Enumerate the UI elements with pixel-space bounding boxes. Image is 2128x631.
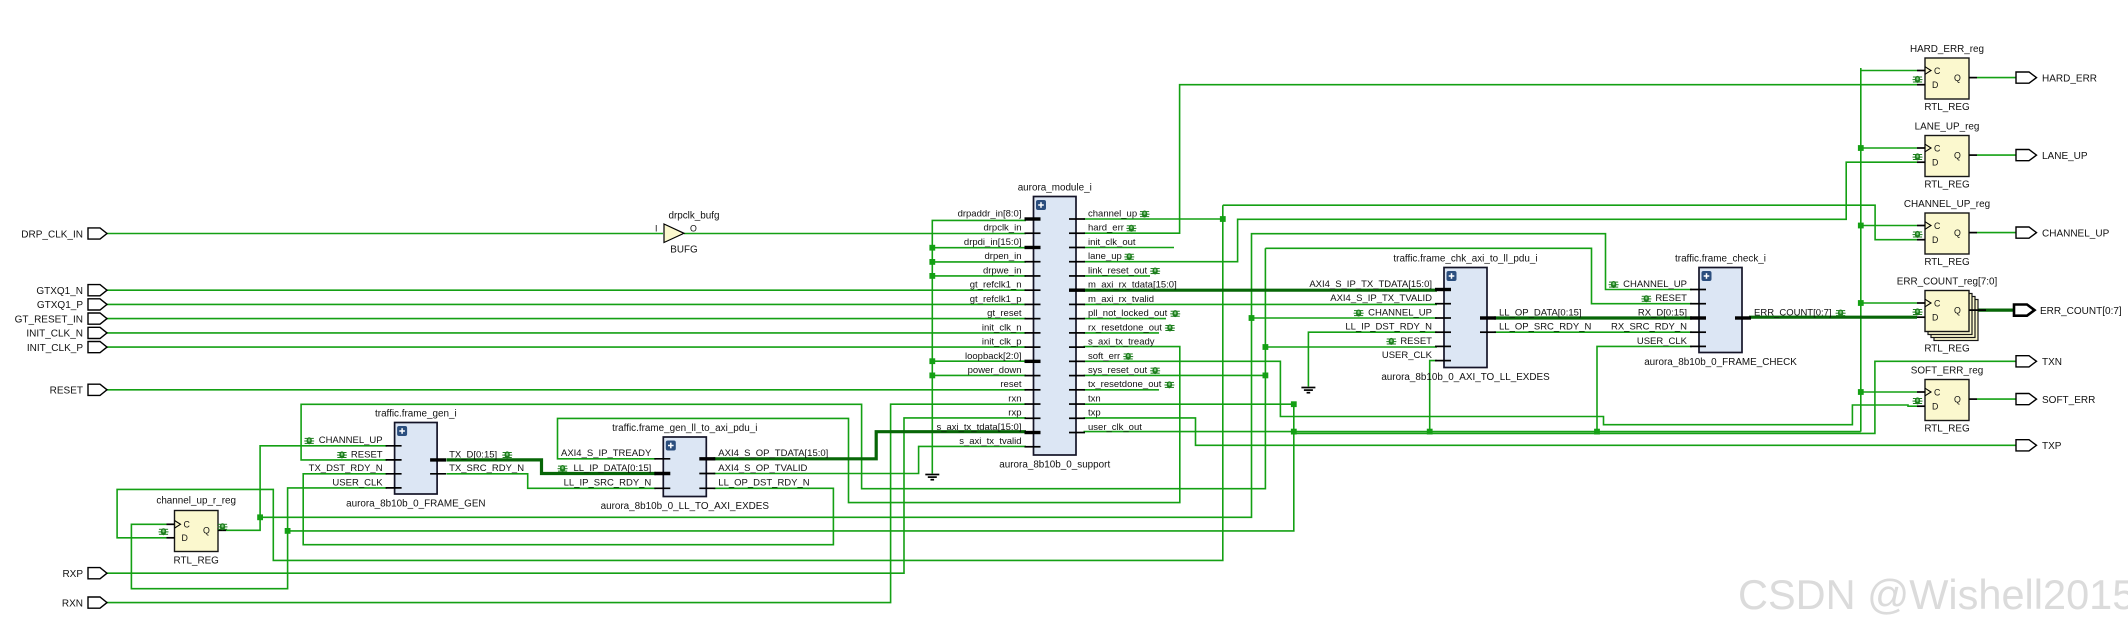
svg-text:init_clk_out: init_clk_out — [1088, 237, 1136, 248]
svg-text:HARD_ERR: HARD_ERR — [2042, 73, 2097, 84]
svg-text:USER_CLK: USER_CLK — [1382, 350, 1433, 361]
debug icons on AXI_TO_LL pins — [1354, 310, 1364, 317]
pin RESET — [1435, 345, 1451, 347]
dangling net tx_resetdone_out — [1084, 389, 1160, 391]
wire GTXQ1_P to gt_refclk1_p — [106, 303, 1026, 305]
svg-text:CSDN @Wishell2015: CSDN @Wishell2015 — [1738, 571, 2128, 618]
svg-text:CHANNEL_UP: CHANNEL_UP — [1623, 279, 1687, 290]
pin LL_OP_DST_RDY_N — [699, 487, 715, 489]
net txp to TXP port — [1084, 418, 2017, 445]
debug icons on channel_up_r_reg — [159, 528, 169, 535]
module traffic.frame_chk_axi_to_ll_pdu_i (aurora_8b10b_0_AXI_TO_LL_EXDES) — [1444, 268, 1487, 368]
svg-text:GTXQ1_P: GTXQ1_P — [37, 300, 83, 311]
svg-text:ERR_COUNT_reg[7:0]: ERR_COUNT_reg[7:0] — [1897, 277, 1998, 288]
net m_axi_rx_tvalid aurora to AXI_TO_LL — [1084, 303, 1438, 305]
debug icons on aurora outputs — [1140, 211, 1150, 218]
debug icon on ERR_COUNT net — [1836, 310, 1846, 317]
pin drpclk_in — [1025, 232, 1041, 234]
svg-text:AXI4_S_OP_TVALID: AXI4_S_OP_TVALID — [718, 463, 807, 474]
svg-text:SOFT_ERR: SOFT_ERR — [2042, 395, 2095, 406]
svg-text:RTL_REG: RTL_REG — [1924, 343, 1969, 354]
input port GT_RESET_IN — [88, 313, 107, 324]
svg-text:tx_resetdone_out: tx_resetdone_out — [1088, 379, 1162, 390]
debug icons on frame_gen pins — [304, 437, 314, 444]
svg-text:TX_SRC_RDY_N: TX_SRC_RDY_N — [449, 463, 524, 474]
svg-text:drpdi_in[15:0]: drpdi_in[15:0] — [964, 237, 1022, 248]
svg-text:loopback[2:0]: loopback[2:0] — [965, 351, 1022, 362]
svg-text:CHANNEL_UP_reg: CHANNEL_UP_reg — [1904, 199, 1990, 210]
net sys_reset_out (reset distribution to frame_gen/AXI_TO_LL/frame_check) — [1084, 374, 1266, 376]
svg-text:power_down: power_down — [968, 365, 1022, 376]
svg-text:RESET: RESET — [351, 449, 383, 460]
wire SOFT_ERR_reg Q to SOFT_ERR port — [1977, 398, 2016, 400]
svg-text:RXP: RXP — [62, 569, 83, 580]
ground net tying aurora drp/loopback/power_down inputs — [932, 220, 1026, 473]
svg-text:Q: Q — [1954, 151, 1961, 161]
svg-text:traffic.frame_check_i: traffic.frame_check_i — [1675, 254, 1766, 265]
svg-text:TX_DST_RDY_N: TX_DST_RDY_N — [309, 463, 383, 474]
wire DRP_CLK_IN to BUFG — [106, 233, 663, 235]
svg-text:D: D — [1932, 158, 1938, 168]
svg-text:D: D — [1932, 402, 1938, 412]
svg-text:BUFG: BUFG — [670, 244, 697, 255]
svg-text:O: O — [690, 224, 697, 234]
svg-text:USER_CLK: USER_CLK — [1637, 336, 1688, 347]
svg-text:RX_D[0:15]: RX_D[0:15] — [1638, 307, 1687, 318]
svg-text:init_clk_n: init_clk_n — [982, 322, 1022, 333]
wire INIT_CLK_P to init_clk_p — [106, 346, 1026, 348]
input port DRP_CLK_IN — [88, 228, 107, 239]
pin AXI4_S_IP_TX_TVALID — [1435, 303, 1451, 305]
svg-text:aurora_8b10b_0_AXI_TO_LL_EXDES: aurora_8b10b_0_AXI_TO_LL_EXDES — [1381, 372, 1550, 383]
register CHANNEL_UP_reg (RTL_REG) — [1925, 213, 1969, 254]
debug icons on frame_check pins — [1609, 281, 1619, 288]
pin init_clk_p — [1025, 346, 1041, 348]
svg-text:C: C — [1934, 387, 1941, 397]
pin drpdi_in[15:0] — [1025, 246, 1041, 249]
output port TXP — [2016, 440, 2037, 451]
dangling net init_clk_out — [1084, 247, 1175, 249]
svg-text:D: D — [1932, 80, 1938, 90]
svg-text:drpclk_in: drpclk_in — [983, 223, 1021, 234]
svg-text:LANE_UP_reg: LANE_UP_reg — [1915, 122, 1980, 133]
svg-text:link_reset_out: link_reset_out — [1088, 265, 1148, 276]
svg-text:reset: reset — [1000, 379, 1021, 390]
svg-text:C: C — [1934, 298, 1941, 308]
register HARD_ERR_reg (RTL_REG) — [1925, 58, 1969, 99]
svg-text:aurora_module_i: aurora_module_i — [1018, 183, 1092, 194]
svg-text:Q: Q — [1954, 228, 1961, 238]
wire LANE_UP_reg Q to LANE_UP port — [1977, 154, 2016, 156]
ground net tying AXI_TO_LL LL_IP_DST_RDY_N — [1308, 332, 1437, 386]
svg-text:aurora_8b10b_0_support: aurora_8b10b_0_support — [999, 460, 1110, 471]
net ll dst_rdy: LL_OP_DST_RDY_N to frame_gen TX_DST_RDY_N — [303, 474, 833, 545]
net channel_up from aurora to CHANNEL_UP_reg D and channel_up_r_reg D — [1084, 218, 1223, 220]
wire GT_RESET_IN to gt_reset — [106, 318, 1026, 320]
ground symbol under aurora — [925, 475, 939, 480]
wire RESET to aurora reset — [106, 389, 1026, 391]
wire CHANNEL_UP_reg Q to CHANNEL_UP port — [1977, 232, 2016, 234]
svg-text:RTL_REG: RTL_REG — [1924, 423, 1969, 434]
svg-text:RTL_REG: RTL_REG — [1924, 257, 1969, 268]
svg-text:s_axi_tx_tvalid: s_axi_tx_tvalid — [959, 436, 1021, 447]
junction dots sys_reset net — [1263, 373, 1269, 379]
svg-text:lane_up: lane_up — [1088, 251, 1122, 262]
pin hard_err — [1069, 232, 1085, 234]
svg-text:soft_err: soft_err — [1088, 351, 1120, 362]
svg-text:RESET: RESET — [1655, 293, 1687, 304]
pin TX_D[0:15] — [430, 458, 446, 461]
pin RX_D[0:15] — [1690, 316, 1706, 319]
svg-text:pll_not_locked_out: pll_not_locked_out — [1088, 308, 1168, 319]
svg-text:I: I — [655, 224, 657, 234]
svg-text:channel_up_r_reg: channel_up_r_reg — [156, 496, 236, 507]
module traffic.frame_check_i (aurora_8b10b_0_FRAME_CHECK) — [1699, 268, 1742, 353]
pin LL_OP_SRC_RDY_N — [1480, 331, 1496, 333]
svg-text:Q: Q — [203, 526, 210, 536]
pin soft_err — [1069, 360, 1085, 362]
svg-text:init_clk_p: init_clk_p — [982, 337, 1022, 348]
output port TXN — [2016, 356, 2037, 367]
input port RXN — [88, 597, 107, 608]
pin CHANNEL_UP — [386, 445, 402, 447]
svg-text:hard_err: hard_err — [1088, 223, 1124, 234]
svg-text:gt_reset: gt_reset — [987, 308, 1022, 319]
svg-text:m_axi_rx_tvalid: m_axi_rx_tvalid — [1088, 294, 1154, 305]
svg-text:s_axi_tx_tdata[15:0]: s_axi_tx_tdata[15:0] — [936, 422, 1021, 433]
input port GTXQ1_P — [88, 299, 107, 310]
pin loopback[2:0] — [1025, 360, 1041, 363]
svg-text:drpwe_in: drpwe_in — [983, 265, 1022, 276]
pin LL_OP_DATA[0:15] — [1480, 316, 1496, 319]
pin txp — [1069, 417, 1085, 419]
register LANE_UP_reg (RTL_REG) — [1925, 136, 1969, 177]
svg-text:AXI4_S_IP_TREADY: AXI4_S_IP_TREADY — [561, 448, 652, 459]
svg-text:LL_OP_SRC_RDY_N: LL_OP_SRC_RDY_N — [1499, 322, 1592, 333]
svg-text:AXI4_S_OP_TDATA[15:0]: AXI4_S_OP_TDATA[15:0] — [718, 448, 828, 459]
pin RESET — [386, 459, 402, 461]
debug icon on LL_IP_DATA — [558, 465, 568, 472]
pin link_reset_out — [1069, 275, 1085, 277]
junction dots user_clk net — [1291, 429, 1297, 435]
svg-text:AXI4_S_IP_TX_TVALID: AXI4_S_IP_TX_TVALID — [1330, 293, 1432, 304]
svg-text:user_clk_out: user_clk_out — [1088, 422, 1142, 433]
junction dots CHANNEL_UP net — [257, 514, 263, 520]
svg-text:USER_CLK: USER_CLK — [332, 477, 383, 488]
ground symbol near AXI_TO_LL — [1301, 388, 1315, 393]
pin s_axi_tx_tdata[15:0] — [1025, 431, 1041, 434]
svg-text:HARD_ERR_reg: HARD_ERR_reg — [1910, 44, 1984, 55]
buffer drpclk_bufg (BUFG) — [664, 224, 684, 243]
svg-text:traffic.frame_gen_i: traffic.frame_gen_i — [375, 409, 457, 420]
svg-text:traffic.frame_gen_ll_to_axi_pd: traffic.frame_gen_ll_to_axi_pdu_i — [612, 423, 757, 434]
svg-text:s_axi_tx_tready: s_axi_tx_tready — [1088, 337, 1155, 348]
svg-text:LL_IP_SRC_RDY_N: LL_IP_SRC_RDY_N — [564, 478, 652, 489]
svg-text:LL_IP_DST_RDY_N: LL_IP_DST_RDY_N — [1345, 322, 1432, 333]
pin init_clk_n — [1025, 332, 1041, 334]
svg-text:RTL_REG: RTL_REG — [1924, 102, 1969, 113]
svg-text:rxp: rxp — [1008, 408, 1021, 419]
svg-text:txp: txp — [1088, 408, 1101, 419]
bus AXI4_S_OP_TDATA to s_axi_tx_tdata — [714, 432, 1027, 459]
pin USER_CLK — [1690, 345, 1706, 347]
pin gt_refclk1_n — [1025, 289, 1041, 291]
register SOFT_ERR_reg (RTL_REG) — [1925, 380, 1969, 421]
bus ERR_COUNT_reg Q to ERR_COUNT port — [1978, 309, 2014, 312]
pin RESET — [1690, 303, 1706, 305]
junction dot txn — [1291, 401, 1297, 407]
pin USER_CLK — [386, 487, 402, 489]
svg-text:C: C — [1934, 143, 1941, 153]
svg-text:RTL_REG: RTL_REG — [174, 556, 219, 567]
output port CHANNEL_UP — [2016, 227, 2037, 238]
register array ERR_COUNT_reg[7:0] (RTL_REG) — [1934, 300, 1978, 341]
pin tx_resetdone_out — [1069, 389, 1085, 391]
output port HARD_ERR — [2016, 72, 2037, 83]
svg-text:C: C — [184, 520, 191, 530]
svg-text:aurora_8b10b_0_FRAME_CHECK: aurora_8b10b_0_FRAME_CHECK — [1644, 357, 1797, 368]
junction dot channel_up — [1220, 216, 1226, 222]
module aurora_module_i (aurora_8b10b_0_support) — [1034, 197, 1077, 456]
pin txn — [1069, 403, 1085, 405]
pin pll_not_locked_out — [1069, 318, 1085, 320]
input port INIT_CLK_N — [88, 327, 107, 338]
svg-text:INIT_CLK_P: INIT_CLK_P — [27, 343, 83, 354]
pin ERR_COUNT[0:7] — [1735, 316, 1751, 319]
pin user_clk_out — [1069, 432, 1085, 434]
svg-text:sys_reset_out: sys_reset_out — [1088, 365, 1148, 376]
net tx_src_rdy: frame_gen TX_SRC_RDY_N to LL_IP_SRC_RDY_N — [447, 474, 657, 489]
svg-text:INIT_CLK_N: INIT_CLK_N — [26, 329, 83, 340]
svg-text:traffic.frame_chk_axi_to_ll_pd: traffic.frame_chk_axi_to_ll_pdu_i — [1393, 254, 1537, 265]
pin LL_IP_SRC_RDY_N — [654, 487, 670, 489]
svg-text:RESET: RESET — [50, 386, 83, 397]
dangling net rx_resetdone_out — [1084, 332, 1160, 334]
pin m_axi_rx_tdata[15:0] — [1069, 288, 1085, 291]
dangling net pll_not_locked_out — [1084, 318, 1167, 320]
net axi tvalid: AXI4_S_OP_TVALID to s_axi_tx_tvalid — [714, 446, 1027, 473]
pin TX_DST_RDY_N — [386, 473, 402, 475]
pin gt_reset — [1025, 318, 1041, 320]
pin m_axi_rx_tvalid — [1069, 303, 1085, 305]
svg-text:gt_refclk1_n: gt_refclk1_n — [970, 280, 1022, 291]
pin reset — [1025, 389, 1041, 391]
svg-text:C: C — [1934, 66, 1941, 76]
svg-text:CHANNEL_UP: CHANNEL_UP — [319, 435, 383, 446]
svg-text:TX_D[0:15]: TX_D[0:15] — [449, 449, 497, 460]
pin RX_SRC_RDY_N — [1690, 331, 1706, 333]
svg-text:m_axi_rx_tdata[15:0]: m_axi_rx_tdata[15:0] — [1088, 280, 1177, 291]
svg-text:D: D — [1932, 235, 1938, 245]
svg-text:DRP_CLK_IN: DRP_CLK_IN — [21, 229, 83, 240]
svg-text:TXP: TXP — [2042, 441, 2062, 452]
output port LANE_UP — [2016, 150, 2037, 161]
input port RXP — [88, 568, 107, 579]
dangling net link_reset_out — [1084, 275, 1151, 277]
svg-text:drpaddr_in[8:0]: drpaddr_in[8:0] — [958, 208, 1022, 219]
pin AXI4_S_OP_TDATA[15:0] — [699, 457, 715, 460]
svg-text:drpclk_bufg: drpclk_bufg — [668, 210, 719, 221]
svg-text:Q: Q — [1954, 395, 1961, 405]
net txn to TXN port — [1084, 361, 2017, 433]
svg-text:D: D — [182, 533, 188, 543]
pin rxn — [1025, 403, 1041, 405]
register channel_up_r_reg (RTL_REG) — [175, 511, 219, 552]
pin drpwe_in — [1025, 275, 1041, 277]
pin lane_up — [1069, 261, 1085, 263]
pin LL_IP_DST_RDY_N — [1435, 331, 1451, 333]
debug icons on register D inputs — [1913, 76, 1923, 83]
svg-text:txn: txn — [1088, 393, 1101, 404]
svg-text:drpen_in: drpen_in — [985, 251, 1022, 262]
pin init_clk_out — [1069, 246, 1085, 248]
wire drpclk (BUFG output to aurora drpclk_in) — [684, 233, 1026, 235]
svg-text:SOFT_ERR_reg: SOFT_ERR_reg — [1911, 366, 1983, 377]
net hard_err to HARD_ERR_reg D — [1084, 85, 1918, 234]
svg-text:channel_up: channel_up — [1088, 208, 1137, 219]
wire GTXQ1_N to gt_refclk1_n — [106, 289, 1026, 291]
svg-text:GT_RESET_IN: GT_RESET_IN — [15, 314, 83, 325]
net LL_OP_SRC_RDY_N to RX_SRC_RDY_N — [1494, 331, 1692, 333]
svg-text:ERR_COUNT[0:7]: ERR_COUNT[0:7] — [2040, 306, 2122, 317]
output port SOFT_ERR — [2016, 394, 2037, 405]
svg-text:C: C — [1934, 221, 1941, 231]
svg-text:AXI4_S_IP_TX_TDATA[15:0]: AXI4_S_IP_TX_TDATA[15:0] — [1309, 279, 1432, 290]
wire HARD_ERR_reg Q to HARD_ERR port — [1977, 77, 2016, 79]
pin drpaddr_in[8:0] — [1025, 217, 1041, 220]
svg-text:gt_refclk1_p: gt_refclk1_p — [970, 294, 1022, 305]
svg-text:CHANNEL_UP: CHANNEL_UP — [1368, 307, 1432, 318]
junction dots on ground net — [929, 245, 935, 251]
net user_clk_out clock distribution — [1084, 431, 1861, 433]
pin channel_up — [1069, 218, 1085, 220]
pin power_down — [1025, 375, 1041, 377]
pin CHANNEL_UP — [1435, 317, 1451, 319]
svg-text:D: D — [1932, 313, 1938, 323]
pin TX_SRC_RDY_N — [430, 473, 446, 475]
bus TX_D frame_gen to LL_IP_DATA — [447, 460, 657, 474]
pin LL_IP_DATA[0:15] — [654, 472, 670, 475]
svg-text:CHANNEL_UP: CHANNEL_UP — [2042, 228, 2110, 239]
input port RESET — [88, 384, 107, 395]
input port GTXQ1_N — [88, 285, 107, 296]
pin AXI4_S_IP_TX_TDATA[15:0] — [1435, 288, 1451, 291]
net lane_up to LANE_UP_reg D — [1084, 162, 1918, 262]
svg-text:LL_OP_DATA[0:15]: LL_OP_DATA[0:15] — [1499, 307, 1582, 318]
pin sys_reset_out — [1069, 375, 1085, 377]
pin AXI4_S_OP_TVALID — [699, 473, 715, 475]
svg-text:LL_OP_DST_RDY_N: LL_OP_DST_RDY_N — [718, 478, 809, 489]
svg-text:RX_SRC_RDY_N: RX_SRC_RDY_N — [1611, 322, 1687, 333]
wire INIT_CLK_N to init_clk_n — [106, 332, 1026, 334]
pin AXI4_S_IP_TREADY — [654, 458, 670, 460]
svg-text:aurora_8b10b_0_FRAME_GEN: aurora_8b10b_0_FRAME_GEN — [346, 499, 485, 510]
svg-text:Q: Q — [1954, 73, 1961, 83]
svg-text:RTL_REG: RTL_REG — [1924, 179, 1969, 190]
svg-text:LL_IP_DATA[0:15]: LL_IP_DATA[0:15] — [573, 463, 651, 474]
bus ERR_COUNT frame_check to ERR_COUNT_reg D — [1749, 316, 1917, 319]
pin drpen_in — [1025, 261, 1041, 263]
svg-text:RXN: RXN — [62, 598, 83, 609]
svg-text:rxn: rxn — [1008, 393, 1021, 404]
wire RXN to aurora rxn — [106, 404, 1026, 602]
pin rxp — [1025, 417, 1041, 419]
svg-text:Q: Q — [1954, 306, 1961, 316]
bus LL_OP_DATA to frame_check RX_D — [1494, 316, 1692, 319]
svg-text:rx_resetdone_out: rx_resetdone_out — [1088, 322, 1162, 333]
input port INIT_CLK_P — [88, 342, 107, 353]
pin s_axi_tx_tvalid — [1025, 446, 1041, 448]
pin CHANNEL_UP — [1690, 289, 1706, 291]
net CHANNEL_UP (channel_up_r_reg Q) to frame_gen/AXI_TO_LL/frame_check — [226, 446, 387, 531]
svg-text:GTXQ1_N: GTXQ1_N — [36, 286, 83, 297]
module traffic.frame_gen_i (aurora_8b10b_0_FRAME_GEN) — [395, 423, 438, 495]
wire RXP to aurora rxp — [106, 418, 1026, 573]
pin gt_refclk1_p — [1025, 303, 1041, 305]
svg-text:RESET: RESET — [1400, 336, 1432, 347]
pin s_axi_tx_tready — [1069, 346, 1085, 348]
module traffic.frame_gen_ll_to_axi_pdu_i (aurora_8b10b_0_LL_TO_AXI_EXDES) — [663, 437, 706, 497]
pin rx_resetdone_out — [1069, 332, 1085, 334]
svg-text:aurora_8b10b_0_LL_TO_AXI_EXDES: aurora_8b10b_0_LL_TO_AXI_EXDES — [601, 501, 770, 512]
net soft_err to SOFT_ERR_reg D — [1084, 361, 1918, 424]
output port ERR_COUNT[0:7] — [2014, 305, 2035, 316]
pin USER_CLK — [1435, 360, 1451, 362]
svg-text:ERR_COUNT[0:7]: ERR_COUNT[0:7] — [1754, 307, 1832, 318]
net s_axi_tx_tready to LL_TO_AXI AXI4_S_IP_TREADY — [558, 347, 1180, 503]
svg-text:LANE_UP: LANE_UP — [2042, 151, 2088, 162]
bus m_axi_rx_tdata aurora to AXI_TO_LL — [1084, 289, 1438, 292]
svg-text:TXN: TXN — [2042, 357, 2062, 368]
